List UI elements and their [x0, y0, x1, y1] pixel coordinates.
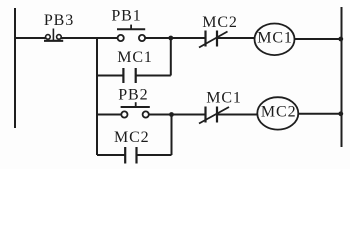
- wire rung1 coil-to-rail segment: [294, 38, 341, 40]
- svg-text:MC1: MC1: [257, 30, 293, 47]
- wire rung2 coil-to-rail segment: [298, 113, 342, 115]
- contact MC2 (NO seal-in, rung 2): [125, 147, 136, 164]
- wire rung2 left segment: [97, 114, 121, 116]
- wire seal-in row 1 right segment: [136, 75, 171, 77]
- wire seal-in row 2 right segment: [137, 154, 172, 156]
- wire rung1 left segment: [15, 37, 46, 39]
- junction node rung2/seal branch: [169, 112, 174, 117]
- svg-text:MC2: MC2: [114, 129, 150, 146]
- junction node rung1/seal branch: [168, 36, 173, 41]
- wire rung2 MC1contact-to-coil segment: [217, 114, 257, 116]
- wire seal-in row 2 left segment: [97, 154, 125, 156]
- svg-text:MC2: MC2: [202, 14, 238, 31]
- pushbutton PB2 (NO start button): [121, 102, 150, 117]
- svg-text:PB3: PB3: [44, 12, 74, 29]
- wire seal-in branch 2 right vertical: [171, 115, 173, 156]
- svg-text:MC1: MC1: [117, 49, 153, 66]
- junction node rung1/right rail: [338, 37, 343, 42]
- svg-text:PB2: PB2: [118, 87, 148, 104]
- right power rail: [341, 7, 343, 147]
- coil MC2: [257, 97, 298, 129]
- wire rung1 PB3-to-PB1 segment: [61, 37, 117, 39]
- coil MC1: [255, 24, 295, 56]
- wire branch vertical after PB3: [96, 38, 98, 155]
- wire rung2 PB2-to-MC1contact segment: [149, 114, 206, 116]
- wire rung1 PB1-to-MC2contact segment: [145, 37, 205, 39]
- pushbutton PB3 (NC stop button): [44, 29, 63, 41]
- contact MC2 (NC interlock, rung 1): [199, 31, 228, 48]
- wire seal-in row 1 left segment: [97, 75, 123, 77]
- wire seal-in branch 1 right vertical: [170, 38, 172, 76]
- pushbutton PB1 (NO start button): [117, 25, 145, 42]
- svg-text:MC2: MC2: [261, 103, 297, 120]
- left power rail: [14, 8, 16, 128]
- wire rung1 MC2contact-to-coil segment: [217, 37, 255, 39]
- junction node rung2/right rail: [338, 111, 343, 116]
- contact MC1 (NC interlock, rung 2): [199, 107, 229, 124]
- contact MC1 (NO seal-in, rung 1): [123, 68, 135, 83]
- svg-text:PB1: PB1: [111, 7, 141, 24]
- svg-text:MC1: MC1: [206, 90, 242, 107]
